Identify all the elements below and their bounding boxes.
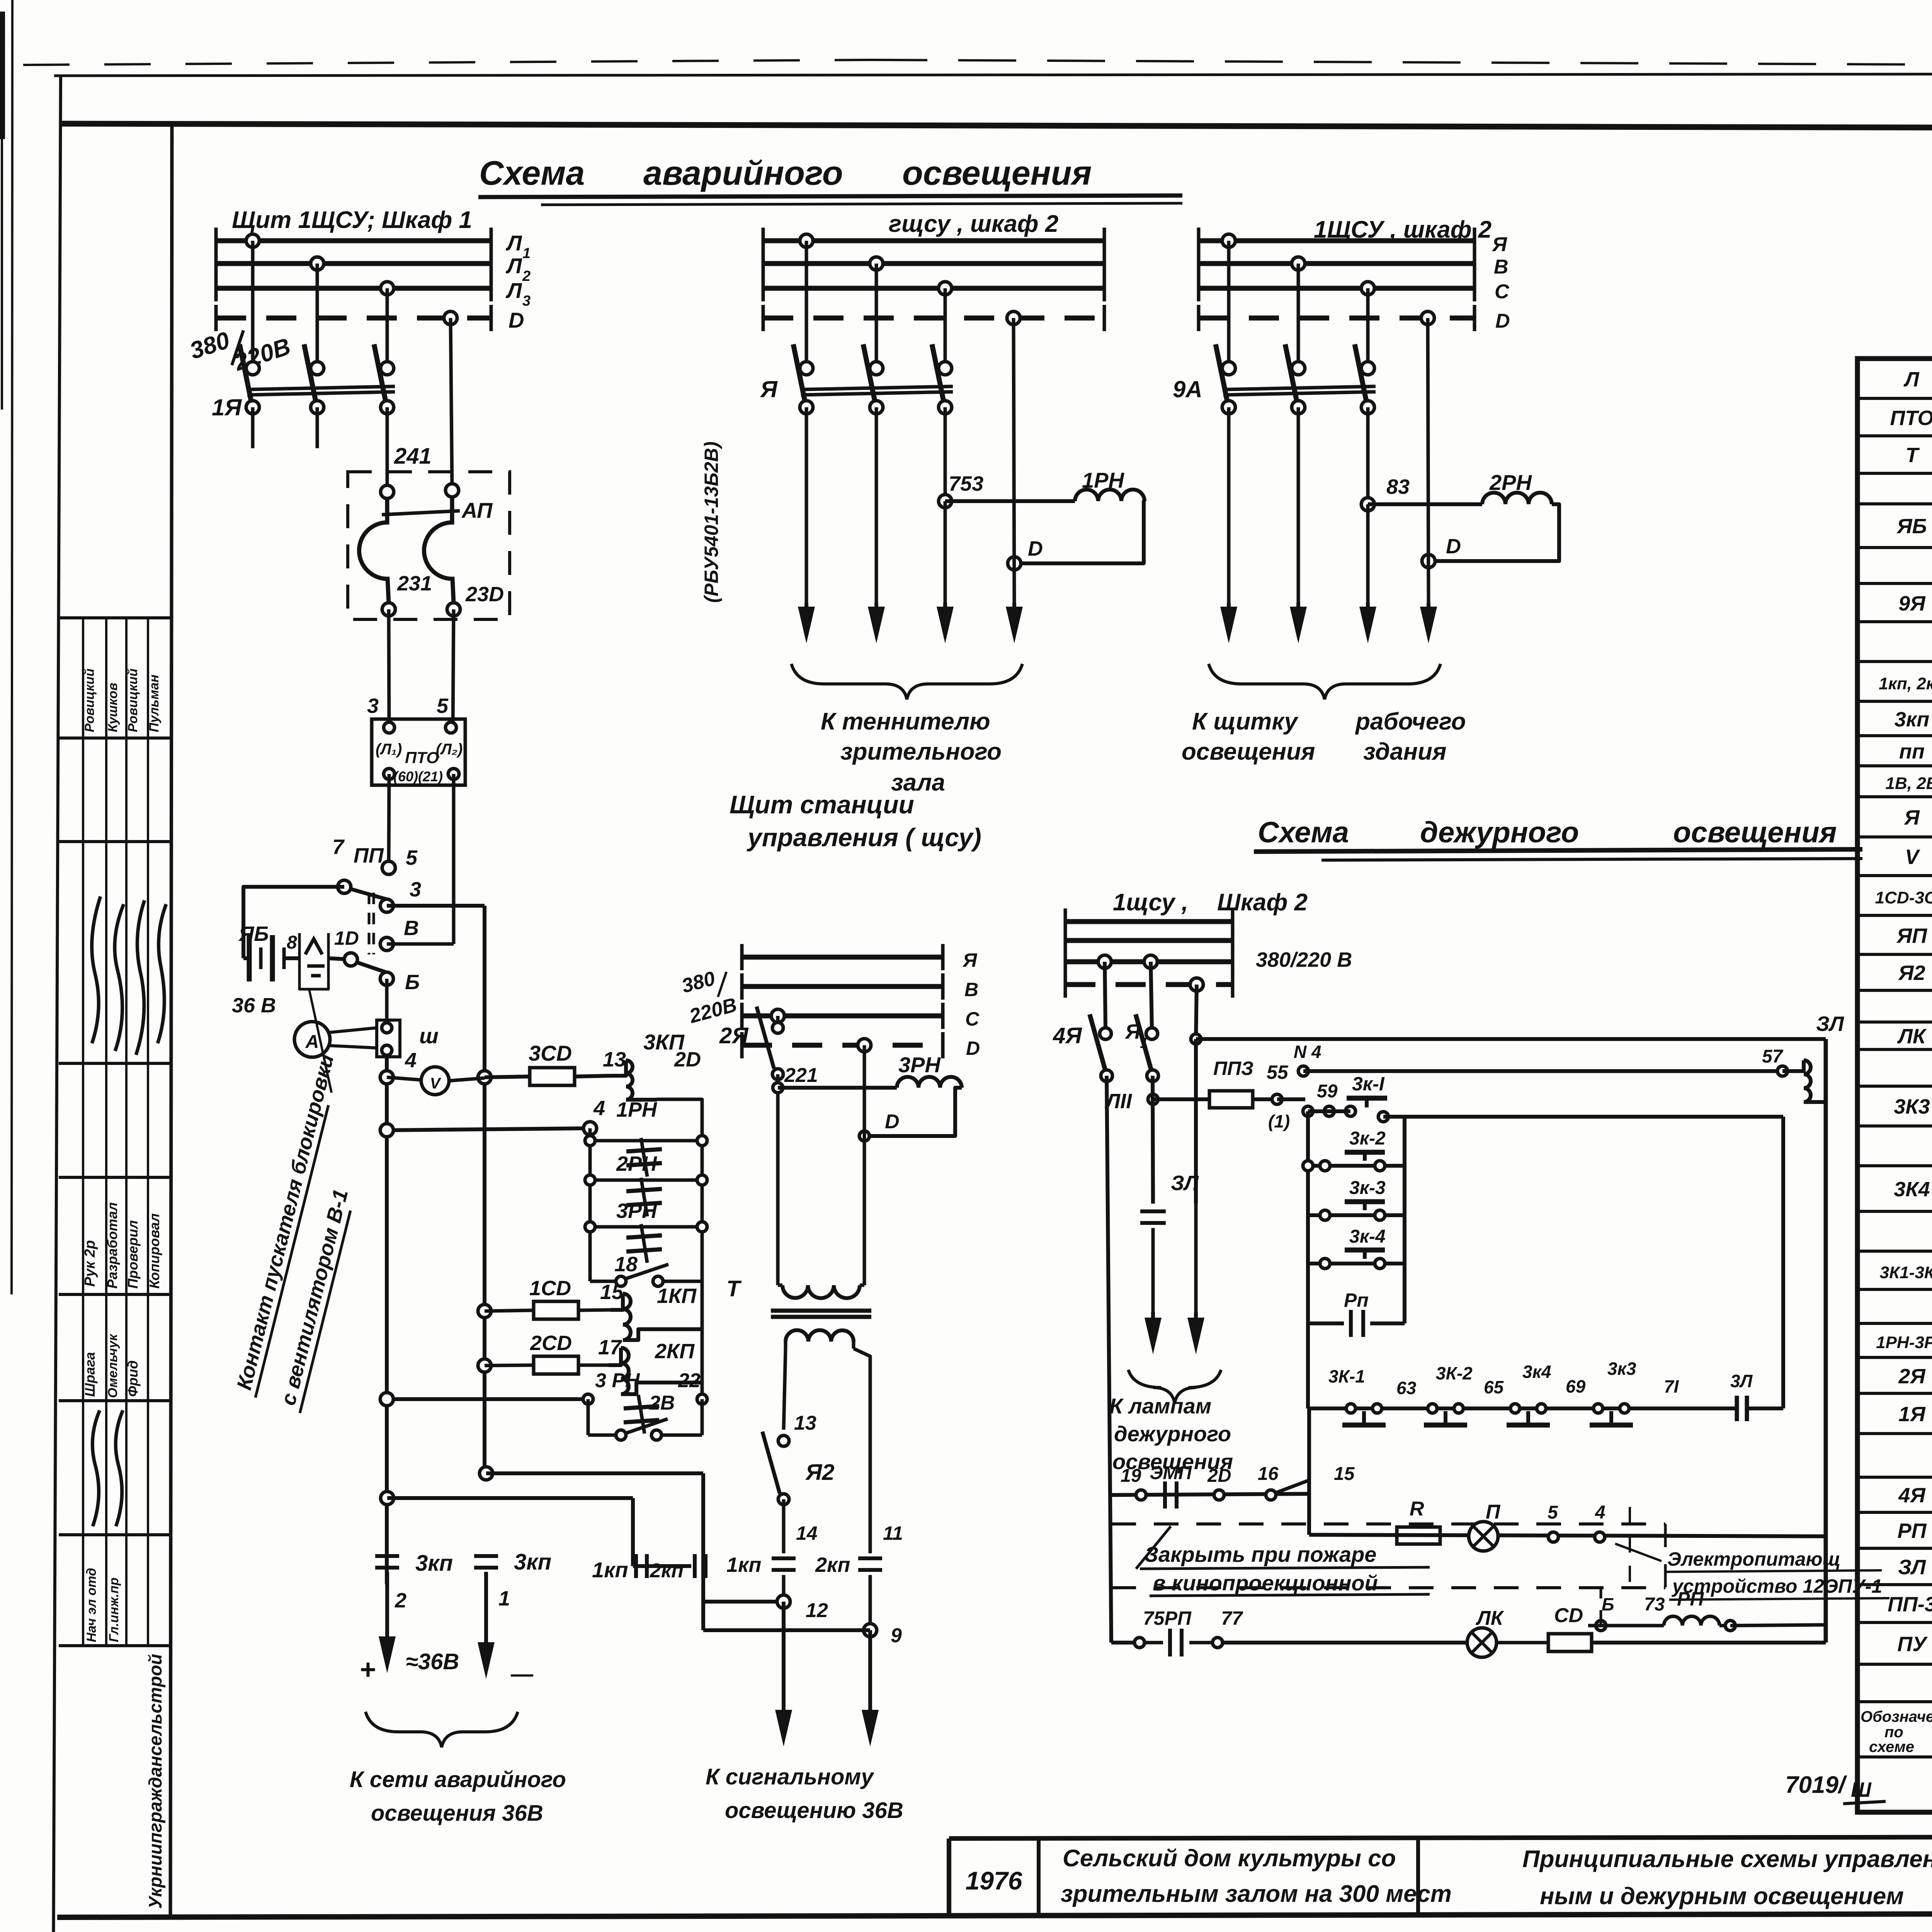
- svg-text:освещения: освещения: [1673, 816, 1837, 849]
- svg-text:4: 4: [593, 1097, 605, 1120]
- svg-text:83: 83: [1386, 475, 1410, 498]
- svg-text:Б: Б: [405, 971, 420, 994]
- svg-text:ЗЛ: ЗЛ: [1816, 1012, 1845, 1036]
- svg-text:Б: Б: [1602, 1594, 1614, 1614]
- svg-text:АП: АП: [461, 498, 493, 522]
- svg-text:Разработал: Разработал: [104, 1202, 120, 1289]
- svg-text:1РН: 1РН: [616, 1098, 657, 1121]
- leader line to ammeter box: [309, 989, 332, 1093]
- ammeter А circle: [294, 1022, 330, 1057]
- verticals to arrows: [805, 407, 808, 603]
- svg-text:П: П: [1486, 1501, 1501, 1523]
- bus Л3: [216, 286, 491, 291]
- svg-text:Я: Я: [760, 376, 778, 402]
- svg-text:4Я: 4Я: [1053, 1023, 1082, 1048]
- table row 5: r ЯБ: [1857, 546, 1932, 549]
- table row 21: r 3К3: [1857, 1124, 1932, 1128]
- wires below fuse box: [389, 609, 389, 728]
- svg-text:753: 753: [949, 472, 983, 495]
- svg-text:(Л₁): (Л₁): [376, 741, 402, 758]
- arrows signal lighting: [782, 1602, 786, 1723]
- svg-text:ПП-3: ПП-3: [1888, 1593, 1932, 1616]
- table row 15: r 1СD-3СD: [1857, 914, 1932, 917]
- D neutral rail to ЗЛ: [1196, 985, 1197, 1039]
- table row 24: s Ч администратора: [1857, 1250, 1932, 1253]
- 1СД 1КП row: [478, 1304, 491, 1318]
- scan vertical thin line: [12, 0, 12, 1294]
- svg-text:9: 9: [891, 1624, 902, 1647]
- svg-text:Обозначен: Обозначен: [1861, 1708, 1932, 1725]
- svg-text:В: В: [404, 917, 419, 940]
- svg-text:1кп: 1кп: [592, 1558, 628, 1582]
- table row 22: s Пульт осветителя: [1857, 1164, 1932, 1167]
- svg-text:7: 7: [332, 835, 345, 859]
- svg-text:1: 1: [522, 245, 531, 262]
- svg-text:гщсу , шкаф 2: гщсу , шкаф 2: [889, 211, 1058, 237]
- drops: [1227, 241, 1231, 368]
- svg-text:Щит станции: Щит станции: [730, 790, 914, 819]
- table row 14: r V: [1857, 874, 1932, 877]
- svg-text:Кушков: Кушков: [105, 683, 120, 732]
- svg-text:ПТО: ПТО: [405, 748, 439, 767]
- svg-text:Укрниипграждансельстрой: Укрниипграждансельстрой: [145, 1654, 165, 1909]
- 3РН coil branch: [778, 1086, 897, 1090]
- transformer core: [771, 1309, 871, 1313]
- svg-text:231: 231: [397, 572, 432, 595]
- svg-text:(Л₂): (Л₂): [436, 741, 463, 758]
- table row 6: s В аккумуляторной: [1857, 582, 1932, 585]
- table row 2: r ПТО: [1857, 434, 1932, 437]
- table row 3: r Т: [1857, 472, 1932, 475]
- svg-text:здания: здания: [1363, 738, 1446, 765]
- svg-text:ЗЛ: ЗЛ: [1898, 1556, 1927, 1579]
- svg-text:1: 1: [498, 1587, 510, 1610]
- svg-text:18: 18: [614, 1253, 638, 1276]
- svg-text:зрительным залом на 300 ме: зрительным залом на 300 мест: [1061, 1881, 1452, 1907]
- table row 33: r ЗЛ: [1857, 1583, 1932, 1586]
- svg-text:в кинопроекционной: в кинопроекционной: [1153, 1571, 1378, 1595]
- battery loop top wire: [243, 887, 344, 958]
- svg-text:2КП: 2КП: [655, 1340, 695, 1363]
- svg-text:+: +: [359, 1654, 376, 1685]
- table row 19: r ЛК: [1857, 1048, 1932, 1051]
- svg-text:14: 14: [796, 1522, 818, 1544]
- В horizontal to ПТО right leg: [387, 942, 454, 946]
- arrows: [1227, 603, 1231, 620]
- svg-text:1щсу ,: 1щсу ,: [1113, 889, 1188, 916]
- svg-text:Ровицкий: Ровицкий: [126, 668, 140, 732]
- svg-text:ным и дежурным освещен: ным и дежурным освещением: [1540, 1883, 1904, 1910]
- svg-text:рабочего: рабочего: [1355, 708, 1466, 735]
- table row 7: r 9Я: [1857, 620, 1932, 623]
- table row 25: r 3К1-3К2: [1857, 1288, 1932, 1291]
- wire ПТО right pin down to В: [452, 774, 456, 944]
- svg-text:зрительного: зрительного: [840, 738, 1002, 765]
- transformer secondary: [786, 1330, 854, 1342]
- table row 27: r 1РН-3РН: [1857, 1356, 1932, 1359]
- scan top wavy dashed line: [23, 60, 869, 65]
- svg-text:1В, 2В: 1В, 2В: [1886, 774, 1932, 793]
- svg-text:Я: Я: [1492, 233, 1507, 256]
- left rail from 4А down: [1107, 1076, 1110, 1495]
- buses schematic3: [1199, 238, 1475, 243]
- table row 13: r Я: [1857, 835, 1932, 838]
- svg-text:D: D: [885, 1111, 900, 1133]
- svg-text:11: 11: [883, 1522, 903, 1544]
- svg-text:D: D: [509, 308, 524, 332]
- svg-text:пп: пп: [1899, 740, 1925, 763]
- svg-text:2РН: 2РН: [616, 1152, 657, 1175]
- svg-text:К сети аварийного: К сети аварийного: [350, 1767, 566, 1792]
- bus Л2: [216, 261, 491, 266]
- ЭМП row: [1111, 1494, 1309, 1495]
- svg-text:С: С: [1495, 281, 1510, 303]
- svg-text:3К-2: 3К-2: [1436, 1363, 1473, 1383]
- breaker 1А poles: [246, 362, 259, 375]
- svg-text:С: С: [965, 1008, 980, 1030]
- svg-text:15: 15: [1334, 1464, 1355, 1484]
- secondary left rail to 13: [784, 1349, 786, 1430]
- svg-text:Рук 2р: Рук 2р: [82, 1240, 98, 1287]
- svg-text:Фрид: Фрид: [125, 1361, 141, 1397]
- svg-text:17: 17: [598, 1336, 622, 1359]
- svg-text:3к-4: 3к-4: [1349, 1226, 1386, 1247]
- button 3К-1 top: [1347, 1096, 1387, 1101]
- svg-text:15: 15: [600, 1281, 624, 1304]
- svg-text:D: D: [1495, 310, 1510, 332]
- drops: [805, 241, 808, 368]
- node 9: [864, 1624, 877, 1637]
- svg-text:(РБУ5401-13Б2В): (РБУ5401-13Б2В): [701, 442, 722, 603]
- svg-text:В: В: [1494, 256, 1509, 278]
- svg-text:РП: РП: [1677, 1588, 1704, 1610]
- svg-text:23D: 23D: [465, 583, 504, 606]
- frame left inner vertical: [170, 124, 172, 1915]
- svg-text:3к-3: 3к-3: [1349, 1178, 1386, 1198]
- svg-text:ППЗ: ППЗ: [1213, 1058, 1253, 1079]
- signature squiggles 2: [92, 1410, 100, 1526]
- svg-text:Я2: Я2: [805, 1460, 835, 1485]
- divider: [1416, 1838, 1420, 1916]
- 2СД 2КП row: [478, 1359, 491, 1372]
- svg-text:Копировал: Копировал: [146, 1213, 162, 1289]
- svg-text:освещения: освещения: [1182, 738, 1315, 765]
- svg-text:СD: СD: [1554, 1604, 1583, 1627]
- svg-text:схеме: схеме: [1869, 1738, 1914, 1755]
- svg-text:В: В: [964, 979, 978, 1000]
- arrows к лампам: [1151, 1312, 1155, 1331]
- caps 3кп on rails: [375, 1554, 399, 1558]
- svg-text:Т: Т: [1906, 444, 1920, 467]
- svg-text:8: 8: [287, 932, 297, 953]
- svg-text:73: 73: [1644, 1594, 1665, 1615]
- svg-text:3К3: 3К3: [1894, 1095, 1930, 1118]
- scan edge bar left: [0, 12, 5, 139]
- svg-text:Омельчук: Омельчук: [105, 1333, 120, 1398]
- svg-text:1СD-3СD: 1СD-3СD: [1875, 888, 1932, 907]
- 1РН coil branch: [945, 499, 1075, 503]
- svg-text:Электропитающ: Электропитающ: [1667, 1548, 1840, 1570]
- svg-text:дежурного: дежурного: [1114, 1422, 1231, 1446]
- svg-text:65: 65: [1484, 1377, 1504, 1397]
- svg-text:≈36В: ≈36В: [406, 1649, 459, 1674]
- Л3 wire down to fuse box: [386, 407, 389, 492]
- svg-text:5: 5: [406, 846, 418, 869]
- svg-text:К лампам: К лампам: [1109, 1394, 1211, 1418]
- svg-text:Л: Л: [505, 231, 522, 255]
- D wire down: [451, 318, 452, 490]
- table row 31: r 4Я: [1857, 1511, 1932, 1514]
- D vertical: [1428, 318, 1429, 603]
- svg-text:36 В: 36 В: [232, 994, 276, 1017]
- svg-text:Щит 1ЩСУ; Шкаф 1: Щит 1ЩСУ; Шкаф 1: [232, 207, 472, 233]
- 3 horizontal to right rail: [387, 904, 485, 908]
- brace: [1209, 664, 1440, 699]
- svg-text:3Л: 3Л: [1730, 1371, 1753, 1391]
- table row 20: s На щитке сигнализа: [1857, 1085, 1932, 1088]
- svg-text:освещения: освещения: [902, 154, 1092, 192]
- svg-text:1СD: 1СD: [529, 1277, 571, 1300]
- svg-text:19: 19: [1121, 1466, 1141, 1486]
- svg-text:Сельский дом культуры со: Сельский дом культуры со: [1063, 1845, 1396, 1872]
- svg-text:4Я: 4Я: [1898, 1484, 1926, 1507]
- 3КП coil vertical: [611, 1060, 626, 1076]
- svg-text:77: 77: [1221, 1607, 1243, 1629]
- svg-text:ЯБ: ЯБ: [1896, 515, 1927, 538]
- ЗЛ cap at chain end: [1735, 1396, 1739, 1421]
- svg-text:Я2: Я2: [1898, 961, 1925, 985]
- signature squiggles: [92, 896, 100, 1043]
- svg-text:2Я: 2Я: [719, 1023, 749, 1048]
- ladder rails: [1306, 1111, 1310, 1408]
- table row 38: e: [1857, 1811, 1932, 1814]
- bottom interconnect: [480, 1467, 493, 1480]
- arrows schematic2: [804, 603, 808, 620]
- right rail down from 3: [483, 906, 486, 1473]
- step down to R row: [1307, 1408, 1311, 1535]
- svg-text:2: 2: [522, 268, 531, 284]
- svg-text:ПУ: ПУ: [1897, 1633, 1928, 1656]
- ПТО box: [372, 719, 465, 785]
- frame top thin line: [54, 73, 1932, 76]
- svg-text:1РН-3РН: 1РН-3РН: [1876, 1333, 1932, 1352]
- svg-text:57: 57: [1762, 1046, 1784, 1067]
- svg-text:4: 4: [1595, 1502, 1605, 1523]
- svg-text:3К4: 3К4: [1894, 1178, 1930, 1201]
- fuse blades tie: [382, 511, 460, 515]
- svg-text:дежурного: дежурного: [1420, 816, 1579, 849]
- svg-text:D: D: [1446, 535, 1461, 558]
- svg-text:ЯП: ЯП: [1896, 924, 1927, 947]
- svg-text:Рп: Рп: [1344, 1289, 1369, 1311]
- svg-text:75РП: 75РП: [1143, 1607, 1192, 1629]
- svg-text:59: 59: [1317, 1081, 1338, 1102]
- breaker Я: [800, 362, 813, 375]
- svg-text:3кп: 3кп: [415, 1551, 453, 1576]
- svg-text:Я: Я: [962, 949, 978, 971]
- svg-text:3: 3: [522, 293, 531, 309]
- svg-text:V: V: [430, 1075, 442, 1092]
- svg-text:3К-1: 3К-1: [1328, 1366, 1365, 1386]
- table row 12: r 1В, 2В: [1857, 795, 1932, 798]
- svg-text:ЯБ: ЯБ: [238, 922, 269, 946]
- table row 29: r 1Я: [1857, 1432, 1932, 1435]
- svg-text:Л: Л: [1903, 368, 1920, 391]
- svg-text:ш: ш: [419, 1024, 439, 1048]
- svg-text:3кп: 3кп: [1895, 708, 1929, 731]
- svg-text:1кп, 2кп: 1кп, 2кп: [1879, 674, 1932, 693]
- mechanical link dashed: [368, 893, 371, 954]
- table row 16: r ЯП: [1857, 953, 1932, 956]
- svg-text:1976: 1976: [966, 1866, 1023, 1895]
- svg-text:5: 5: [437, 694, 449, 718]
- svg-text:3: 3: [410, 878, 421, 901]
- svg-text:2: 2: [395, 1589, 406, 1612]
- svg-text:ПП: ПП: [354, 844, 384, 867]
- svg-text:освещения 36В: освещения 36В: [371, 1801, 543, 1826]
- 75РП 77 bottom row: [1111, 1641, 1134, 1645]
- svg-text:2Я: 2Я: [1898, 1365, 1926, 1388]
- ammeter shunt box Λ: [299, 933, 328, 989]
- svg-text:241: 241: [394, 444, 432, 469]
- svg-text:Пульман: Пульман: [147, 675, 162, 732]
- svg-text:9Я: 9Я: [1898, 592, 1926, 615]
- svg-text:3к-I: 3к-I: [1352, 1073, 1385, 1095]
- table row 8: s В щитовой: [1857, 660, 1932, 663]
- svg-text:1D: 1D: [334, 927, 359, 949]
- chain buttons: [1346, 1404, 1355, 1413]
- svg-text:К щитку: К щитку: [1192, 708, 1299, 735]
- svg-text:4: 4: [405, 1049, 417, 1072]
- rail Б continue down: [385, 1057, 389, 1584]
- svg-text:Схема: Схема: [479, 154, 585, 192]
- svg-text:1КП: 1КП: [657, 1284, 697, 1308]
- svg-text:2D: 2D: [674, 1048, 701, 1071]
- ladder rails: [588, 1128, 592, 1281]
- svg-text:3кп: 3кп: [514, 1549, 551, 1575]
- svg-text:3к-2: 3к-2: [1349, 1128, 1386, 1149]
- title block top border: [949, 1836, 1932, 1838]
- D vertical to transformer: [863, 1045, 866, 1285]
- fuse box АП (dashed): [348, 472, 510, 619]
- svg-text:R: R: [1410, 1498, 1424, 1520]
- svg-text:12: 12: [806, 1599, 828, 1622]
- bottom chain row: [1308, 1406, 1736, 1410]
- svg-text:аварийного: аварийного: [643, 154, 843, 192]
- D vertical: [1014, 318, 1014, 603]
- breaker 9А: [1222, 362, 1235, 375]
- buses schematic5: [1065, 919, 1233, 924]
- svg-text:Нач эл отд: Нач эл отд: [84, 1568, 99, 1642]
- fuse 230: [446, 484, 459, 497]
- svg-text:2D: 2D: [1207, 1466, 1231, 1486]
- svg-text:управления ( щсу): управления ( щсу): [747, 823, 981, 852]
- svg-text:—: —: [510, 1662, 534, 1687]
- table row 4: s В зарядной: [1857, 502, 1932, 505]
- brace schematic2: [791, 664, 1022, 699]
- svg-text:380/220 В: 380/220 В: [1256, 948, 1352, 971]
- svg-text:3: 3: [367, 694, 379, 718]
- svg-text:9А: 9А: [1173, 376, 1202, 402]
- svg-text:3К1-3К2: 3К1-3К2: [1880, 1263, 1932, 1282]
- Б down through shunt box ш: [385, 979, 389, 1020]
- table row 26: s В кинопроекционной: [1857, 1322, 1932, 1325]
- svg-text:5: 5: [1548, 1502, 1558, 1523]
- buses schematic2: [763, 238, 1104, 243]
- taps: [1098, 955, 1111, 968]
- svg-text:Шкаф 2: Шкаф 2: [1217, 889, 1308, 916]
- taps: [771, 1009, 784, 1022]
- brace emergency net: [366, 1712, 518, 1747]
- wire to contact 10: [328, 958, 351, 959]
- frame bottom thick line (title block bottom): [57, 1913, 1932, 1917]
- bus Л1: [216, 238, 491, 243]
- table row 11: r пп: [1857, 764, 1932, 767]
- svg-text:55: 55: [1267, 1061, 1289, 1083]
- table row 37: h: [1857, 1755, 1932, 1759]
- dashed box Закрыть при пожаре: [1111, 1522, 1665, 1526]
- 2РН coil branch: [1368, 502, 1482, 506]
- table row 18: s В шкафу аварийного: [1857, 1020, 1932, 1024]
- fuse ПП3: [1153, 1097, 1209, 1101]
- frame left outer vertical: [53, 75, 61, 1932]
- svg-text:К теннителю: К теннителю: [821, 708, 990, 735]
- table row 9: r 1кп, 2кп: [1857, 700, 1932, 703]
- svg-text:3к4: 3к4: [1522, 1362, 1551, 1382]
- svg-text:13: 13: [603, 1048, 626, 1071]
- svg-text:7I: 7I: [1664, 1376, 1679, 1396]
- svg-text:РП: РП: [1898, 1519, 1927, 1543]
- svg-text:(60)(21): (60)(21): [393, 769, 443, 784]
- voltmeter V: [387, 1077, 422, 1080]
- svg-text:Шрага: Шрага: [82, 1352, 98, 1397]
- svg-text:ЗЛ: ЗЛ: [1171, 1172, 1199, 1195]
- svg-text:221: 221: [784, 1064, 818, 1087]
- svg-text:ЭМП: ЭМП: [1150, 1463, 1192, 1483]
- buses schematic4: [742, 955, 943, 960]
- svg-text:Ш: Ш: [1851, 1778, 1872, 1801]
- svg-text:Л: Л: [505, 253, 522, 278]
- svg-text:ЛК: ЛК: [1897, 1025, 1927, 1048]
- svg-text:2кп: 2кп: [650, 1560, 684, 1582]
- svg-text:ПТО: ПТО: [1890, 406, 1932, 430]
- dashed partition: [1629, 1507, 1631, 1588]
- svg-text:Проверил: Проверил: [125, 1220, 141, 1289]
- table row 30: s Расцепитель 40Я: [1857, 1476, 1932, 1479]
- left margin table grid: [59, 616, 171, 619]
- svg-text:(1): (1): [1268, 1111, 1290, 1131]
- caps 1кп 2кп on horizontal: [633, 1564, 691, 1568]
- table row 32: r РП: [1857, 1547, 1932, 1550]
- verticals: [1227, 407, 1231, 603]
- svg-text:13: 13: [794, 1412, 816, 1434]
- svg-text:D: D: [966, 1037, 980, 1059]
- chain to loop rail: [1747, 1406, 1783, 1410]
- svg-text:2СD: 2СD: [530, 1332, 572, 1355]
- svg-text:3РН: 3РН: [898, 1053, 941, 1077]
- svg-text:1Я: 1Я: [212, 395, 242, 420]
- svg-text:А: А: [305, 1032, 319, 1052]
- frame top thick line: [61, 124, 1932, 129]
- svg-text:63: 63: [1396, 1378, 1417, 1398]
- node taps schematic1: [246, 234, 259, 247]
- taps: [1222, 234, 1235, 247]
- node 12: [777, 1595, 790, 1608]
- svg-text:Я: Я: [1903, 806, 1920, 829]
- svg-text:V: V: [1905, 845, 1920, 869]
- svg-text:3СD: 3СD: [529, 1041, 572, 1065]
- table row 10: r 3кп: [1857, 734, 1932, 737]
